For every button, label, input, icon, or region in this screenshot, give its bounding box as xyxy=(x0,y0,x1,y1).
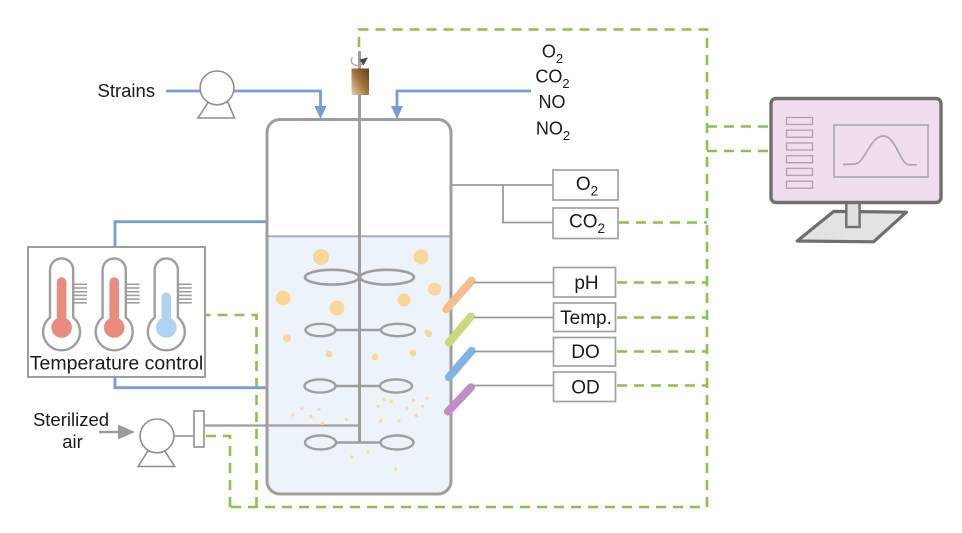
monitor menu list xyxy=(787,118,813,189)
pump P2 air xyxy=(138,419,175,467)
node O2 box xyxy=(553,170,618,200)
impeller level 3 xyxy=(305,379,413,392)
vessel liquid xyxy=(269,237,450,493)
wire green dashed from pH box xyxy=(617,281,707,284)
bubbles speckles xyxy=(291,397,429,471)
wire blue temperature loop lower xyxy=(115,377,266,388)
wire gray sensor to DO box xyxy=(474,351,553,353)
wire blue gas feed line with arrow xyxy=(397,91,531,107)
vessel body xyxy=(267,120,451,495)
wire gray air inlet arrow xyxy=(99,431,120,433)
sensor probe pH (orange) xyxy=(446,281,471,310)
wire gray vessel to O2 box xyxy=(451,184,553,186)
thermometer T3 (blue) xyxy=(148,258,192,350)
svg-text:air: air xyxy=(62,431,83,452)
svg-text:Temp.: Temp. xyxy=(560,308,612,329)
wire green dashed branch to temperature control xyxy=(204,315,257,507)
svg-text:NO2: NO2 xyxy=(536,119,570,144)
wire gray sensor to OD box xyxy=(474,385,553,387)
monitor stand neck xyxy=(846,201,859,227)
svg-text:OD: OD xyxy=(571,377,600,398)
node CO2 box xyxy=(553,208,618,239)
sparger inlet xyxy=(194,411,204,447)
wire gray branch to CO2 box xyxy=(503,185,553,223)
node DO box xyxy=(554,338,616,367)
monitor graph curve xyxy=(843,136,917,165)
bubbles large xyxy=(276,249,442,360)
monitor U1 body xyxy=(771,99,941,203)
wire gray sparger line into vessel xyxy=(204,424,360,426)
temperature control unit box xyxy=(28,247,205,377)
motor M1 xyxy=(352,69,370,96)
sensor probe Temp (green) xyxy=(449,317,471,343)
thermometer T1 (red) xyxy=(43,258,87,350)
motor rotation arrow xyxy=(351,58,363,66)
wire green dashed to monitor upper xyxy=(707,125,771,128)
monitor graph frame xyxy=(834,125,928,177)
wire green dashed from CO2 box xyxy=(619,221,707,224)
impeller level 4 xyxy=(305,436,414,450)
svg-text:O2: O2 xyxy=(542,42,563,66)
wire pump to sparger xyxy=(174,435,197,437)
svg-text:Strains: Strains xyxy=(98,80,156,101)
wire green dashed from DO box xyxy=(617,350,707,353)
stirrer shaft xyxy=(358,51,361,443)
wire blue temperature loop upper xyxy=(115,222,266,247)
wire green dashed to monitor lower xyxy=(707,150,771,153)
svg-text:NO: NO xyxy=(539,92,566,112)
svg-text:Sterilized: Sterilized xyxy=(33,409,109,430)
sensor probe OD (purple) xyxy=(448,387,471,411)
pump P1 strains xyxy=(198,71,235,118)
svg-text:DO: DO xyxy=(571,342,600,363)
wire gray sensor to pH box xyxy=(474,282,553,284)
sensor probe DO (blue) xyxy=(449,351,472,377)
thermometer T2 (red) xyxy=(96,258,140,350)
svg-text:CO2: CO2 xyxy=(535,66,569,91)
impeller level 1 xyxy=(305,270,414,285)
wire green dashed branch to sparger xyxy=(204,436,230,507)
svg-text:Temperature control: Temperature control xyxy=(30,353,203,375)
wire green dashed from Temp box xyxy=(617,316,707,319)
impeller level 2 xyxy=(306,324,416,336)
vessel liquid surface line xyxy=(269,235,450,237)
wire blue strains feed line with arrow xyxy=(166,91,321,107)
wire gray sensor to Temp box xyxy=(474,317,553,319)
node pH box xyxy=(554,268,616,298)
monitor stand base xyxy=(797,211,906,241)
wire green dashed feedback loop: motor top to right rail xyxy=(230,30,707,508)
wire green dashed from OD box xyxy=(617,384,707,387)
svg-text:pH: pH xyxy=(574,273,598,294)
node OD box xyxy=(554,372,616,402)
node Temp box xyxy=(554,303,616,332)
